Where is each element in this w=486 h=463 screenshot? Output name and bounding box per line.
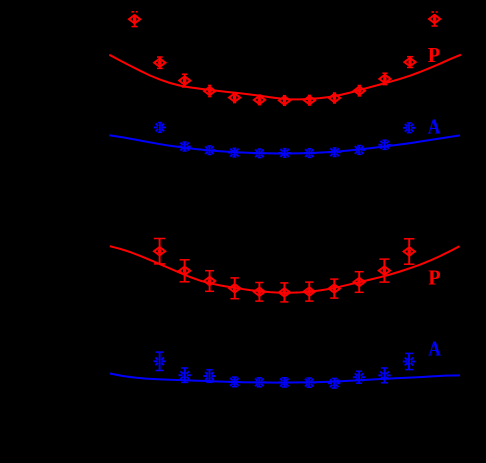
P-top data point 9 with error bar (329, 93, 340, 103)
svg-text:A: A (428, 114, 441, 138)
P-top data point 6 with error bar (254, 95, 265, 105)
A-top data point 5 with error bar (253, 149, 265, 158)
P-top data point 4 with error bar (204, 85, 215, 96)
A-bottom data point 2 with error bar (179, 368, 191, 382)
P-bottom data point 10 with error bar (379, 259, 390, 282)
P-top data point 13 with error bar (429, 11, 440, 26)
P-top data point 2 with error bar (154, 57, 165, 68)
P-bottom data point 5 with error bar (254, 283, 265, 302)
A-top data point 4 with error bar (228, 148, 240, 157)
P-bottom data point 8 with error bar (329, 279, 340, 298)
P-top data point 3 with error bar (179, 74, 190, 87)
A-bottom data point 5 with error bar (253, 378, 265, 387)
P-bottom data point 9 with error bar (354, 272, 365, 293)
A-bottom data point 6 with error bar (278, 378, 290, 387)
A-top data point 9 with error bar (353, 145, 365, 154)
A-top data point 8 with error bar (328, 148, 340, 157)
fit curve A (top panel, blue cosh fit) (109, 135, 460, 153)
A-bottom data point 10 with error bar (378, 368, 390, 383)
P-top data point 5 with error bar (229, 93, 240, 103)
P-top data point 11 with error bar (379, 73, 390, 84)
fit curve P (top panel, red cosh fit) (109, 55, 461, 100)
A-top data point 10 with error bar (378, 140, 390, 149)
A-top data point 11 with error bar (403, 123, 415, 133)
A-bottom data point 7 with error bar (303, 378, 315, 387)
A-bottom data point 1 with error bar (153, 352, 165, 370)
A-bottom data point 9 with error bar (353, 371, 365, 383)
P-bottom data point 3 with error bar (204, 271, 215, 292)
P-bottom data point 4 with error bar (229, 278, 240, 299)
A-bottom data point 3 with error bar (203, 370, 215, 383)
svg-text:A: A (428, 337, 441, 361)
A-top data point 3 with error bar (203, 146, 215, 155)
svg-text:P: P (428, 43, 441, 67)
P-top data point 8 with error bar (304, 95, 315, 105)
A-bottom data point 11 with error bar (403, 353, 415, 369)
P-top data point 12 with error bar (404, 57, 415, 68)
P-bottom data point 11 with error bar (404, 239, 415, 264)
A-bottom data point 8 with error bar (328, 378, 340, 388)
P-bottom data point 1 with error bar (154, 239, 165, 264)
A-top data point 1 with error bar (154, 123, 166, 133)
P-top data point 7 with error bar (279, 96, 290, 106)
fit curve A (bottom panel, blue cosh fit) (110, 374, 460, 383)
svg-text:P: P (428, 265, 441, 289)
A-top data point 6 with error bar (278, 148, 290, 157)
fit curve P (bottom panel, red cosh fit) (110, 246, 460, 293)
P-bottom data point 7 with error bar (304, 282, 315, 301)
A-top data point 2 with error bar (178, 142, 190, 151)
P-bottom data point 6 with error bar (279, 283, 290, 302)
P-top data point 1 with error bar (129, 11, 140, 27)
A-bottom data point 4 with error bar (228, 377, 240, 387)
A-top data point 7 with error bar (303, 148, 315, 157)
P-bottom data point 2 with error bar (179, 260, 190, 282)
P-top data point 10 with error bar (354, 86, 365, 96)
